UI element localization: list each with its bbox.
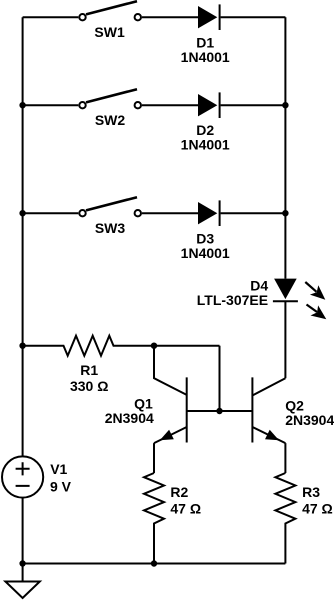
svg-text:Q1: Q1 bbox=[134, 396, 153, 412]
svg-text:2N3904: 2N3904 bbox=[285, 412, 334, 428]
svg-text:SW1: SW1 bbox=[94, 24, 125, 40]
svg-text:R2: R2 bbox=[170, 484, 188, 500]
svg-text:D3: D3 bbox=[196, 231, 214, 247]
svg-text:Q2: Q2 bbox=[285, 397, 304, 413]
svg-text:V1: V1 bbox=[50, 461, 67, 477]
svg-text:330 Ω: 330 Ω bbox=[70, 378, 108, 394]
svg-text:SW2: SW2 bbox=[95, 112, 126, 128]
svg-text:R3: R3 bbox=[302, 484, 320, 500]
svg-text:1N4001: 1N4001 bbox=[181, 137, 230, 153]
svg-text:2N3904: 2N3904 bbox=[105, 410, 154, 426]
svg-text:9 V: 9 V bbox=[50, 478, 72, 494]
svg-text:D1: D1 bbox=[196, 35, 214, 51]
svg-text:47 Ω: 47 Ω bbox=[302, 500, 333, 516]
svg-text:SW3: SW3 bbox=[95, 220, 126, 236]
svg-text:LTL-307EE: LTL-307EE bbox=[197, 292, 268, 308]
svg-text:1N4001: 1N4001 bbox=[181, 245, 230, 261]
svg-text:47 Ω: 47 Ω bbox=[170, 500, 201, 516]
svg-text:D4: D4 bbox=[250, 277, 268, 293]
svg-text:1N4001: 1N4001 bbox=[181, 49, 230, 65]
svg-text:R1: R1 bbox=[80, 362, 98, 378]
